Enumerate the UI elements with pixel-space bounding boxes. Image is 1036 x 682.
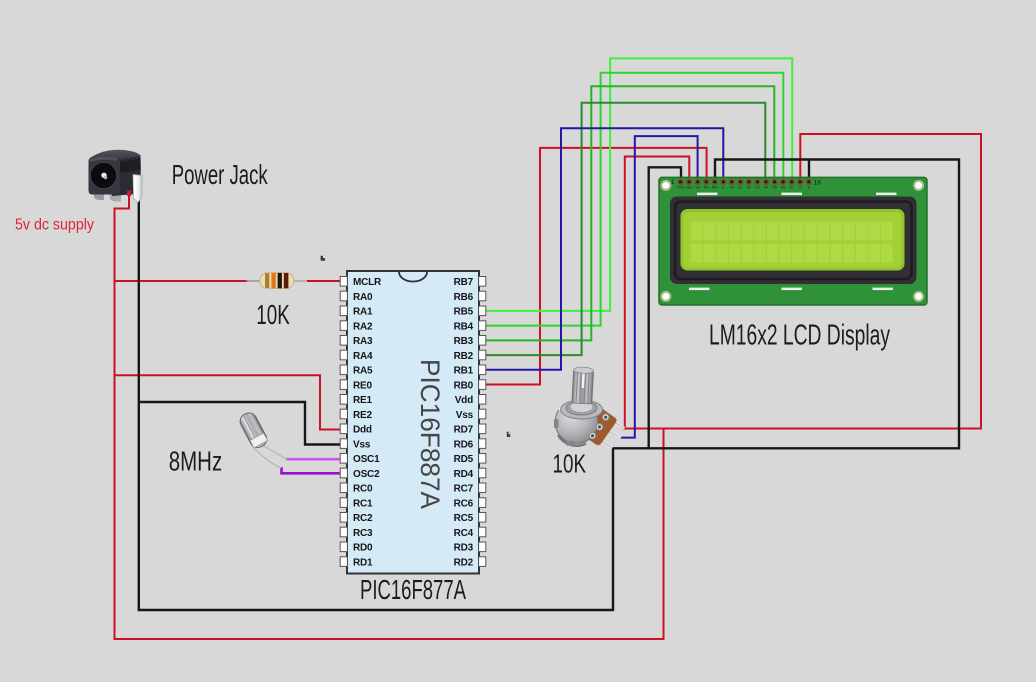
svg-text:8MHz: 8MHz: [169, 446, 223, 477]
pin RB3 (right 5): [479, 336, 486, 346]
pin RC7 (right 15): [479, 483, 486, 493]
pin RD2 (right 20): [479, 557, 486, 567]
svg-text:RD3: RD3: [454, 543, 474, 554]
svg-text:RB7: RB7: [454, 277, 474, 288]
svg-text:RS: RS: [704, 186, 709, 190]
pin RC1 (left 16): [340, 498, 347, 508]
svg-text:RC5: RC5: [454, 513, 474, 524]
pin RC6 (right 16): [479, 498, 486, 508]
wire OSC1 (violet): [287, 458, 342, 461]
svg-text:D0: D0: [730, 186, 734, 190]
svg-text:PIC16F877A: PIC16F877A: [360, 574, 466, 605]
svg-text:RE0: RE0: [353, 380, 372, 391]
body top: [90, 150, 141, 161]
wire MCLR branch (red): [114, 280, 249, 282]
svg-text:V0: V0: [696, 186, 700, 190]
svg-text:RD5: RD5: [454, 454, 474, 465]
svg-text:Vss: Vss: [353, 439, 371, 450]
LCD bezel: [670, 197, 917, 285]
svg-text:1: 1: [671, 179, 675, 186]
svg-text:RB4: RB4: [454, 321, 474, 332]
LCD PCB board: [659, 177, 927, 305]
svg-text:RC3: RC3: [353, 528, 373, 539]
pin RB2 (right 6): [479, 350, 486, 360]
svg-text:RC0: RC0: [353, 484, 373, 495]
svg-text:10K: 10K: [553, 448, 587, 478]
character cells: [691, 222, 893, 263]
svg-text:VDD: VDD: [686, 186, 694, 190]
svg-text:Vss: Vss: [456, 410, 474, 421]
front face: [89, 158, 121, 195]
pin Vss (right 10): [479, 409, 486, 419]
svg-text:RC1: RC1: [353, 498, 373, 509]
wire ground: jack to bottom rail to pot/LCD rail (black): [139, 196, 613, 610]
pin RC2 (left 17): [340, 513, 347, 523]
pin name labels: [677, 186, 811, 190]
svg-text:RC7: RC7: [454, 484, 474, 495]
mounting hole BR: [913, 291, 924, 302]
pin RE1 (left 9): [340, 395, 347, 405]
wire 5V rail: jack to bottom rail up to LCD area (red): [115, 191, 664, 639]
wire 5V to LCD VDD pin 2 (red): [625, 157, 690, 429]
svg-text:RE2: RE2: [353, 410, 372, 421]
lead left: [246, 280, 262, 282]
band 1 brown-gold: [265, 273, 269, 288]
svg-text:RA4: RA4: [353, 351, 373, 362]
svg-text:5v dc supply: 5v dc supply: [15, 217, 94, 234]
wire OSC2 (purple): [282, 467, 342, 473]
svg-text:RC6: RC6: [454, 498, 474, 509]
svg-text:RB3: RB3: [454, 336, 474, 347]
notch: [399, 272, 427, 282]
pin OSC1 (left 13): [340, 454, 347, 464]
body can: [555, 401, 598, 444]
LCD module: [659, 177, 927, 305]
svg-text:RC2: RC2: [353, 513, 373, 524]
svg-text:RB5: RB5: [454, 307, 474, 318]
svg-text:RA2: RA2: [353, 321, 373, 332]
pin RB6 (right 2): [479, 291, 486, 301]
pin RD6 (right 12): [479, 439, 486, 449]
svg-text:RB0: RB0: [454, 380, 474, 391]
band 4 dark brown: [284, 273, 289, 288]
pin RD3 (right 19): [479, 542, 486, 552]
terminal wafer: [582, 408, 618, 446]
PIC pins: [340, 277, 486, 569]
shaft: [572, 367, 594, 404]
eyelets: [602, 414, 609, 421]
pin holes row: [677, 179, 812, 185]
pin RE0 (left 8): [340, 380, 347, 390]
pin RB1 (right 7): [479, 365, 486, 375]
svg-text:RD2: RD2: [454, 557, 474, 568]
wire RB1 to LCD E (blue): [486, 128, 723, 369]
node artifact tick left of pot: [507, 432, 510, 437]
svg-text:RB2: RB2: [454, 351, 474, 362]
svg-text:D3: D3: [755, 186, 759, 190]
svg-text:16: 16: [814, 179, 822, 186]
pin Ddd (left 11): [340, 424, 347, 434]
svg-text:Vdd: Vdd: [455, 395, 473, 406]
svg-text:RA5: RA5: [353, 366, 373, 377]
svg-text:RC4: RC4: [454, 528, 474, 539]
svg-text:RB1: RB1: [454, 366, 474, 377]
wire ground branch to LCD K pin (black): [808, 160, 810, 181]
lead 2: [253, 447, 282, 468]
potentiometer RV1 10K: [554, 367, 625, 448]
svg-text:RW: RW: [712, 186, 718, 190]
svg-text:PIC16F887A: PIC16F887A: [415, 359, 445, 509]
pin RA0 (left 2): [340, 291, 347, 301]
svg-text:RB6: RB6: [454, 292, 474, 303]
svg-text:OSC2: OSC2: [353, 469, 380, 480]
wire RB5 to LCD D7 (bright green): [486, 58, 792, 311]
svg-text:VSS: VSS: [677, 186, 685, 190]
bushing and nut: [561, 400, 603, 419]
barrel hole: [90, 162, 116, 188]
pin RA3 (left 5): [340, 336, 347, 346]
svg-text:OSC1: OSC1: [353, 454, 380, 465]
svg-text:RD0: RD0: [353, 543, 373, 554]
pin RB5 (right 3): [479, 306, 486, 316]
svg-text:D2: D2: [747, 186, 751, 190]
pin RD4 (right 14): [479, 468, 486, 478]
wire Ddd branch (red): [114, 375, 342, 429]
pin RA1 (left 3): [340, 306, 347, 316]
center pin: [101, 173, 106, 178]
svg-text:Power Jack: Power Jack: [172, 159, 269, 190]
lead 1: [259, 443, 287, 459]
silkscreen dashes top: [697, 193, 718, 196]
band 2 orange: [271, 273, 275, 288]
svg-text:RA3: RA3: [353, 336, 373, 347]
pin RB7 (right 1): [479, 277, 486, 287]
node artifact square near MCLR: [321, 256, 326, 261]
LCD screen: [681, 209, 905, 271]
svg-text:D7: D7: [790, 186, 794, 190]
wire RB3 to LCD D5 (green): [486, 86, 774, 340]
red tip mark: [127, 191, 131, 197]
resistor R1 10K: [246, 273, 307, 289]
svg-text:D5: D5: [772, 186, 776, 190]
svg-text:D1: D1: [738, 186, 742, 190]
band 3 black: [278, 273, 282, 288]
svg-text:10K: 10K: [256, 299, 290, 330]
metal foot: [110, 194, 121, 202]
pin RC0 (left 15): [340, 483, 347, 493]
pin RD1 (left 20): [340, 557, 347, 567]
pin RD0 (left 19): [340, 542, 347, 552]
pin Vdd (right 9): [479, 395, 486, 405]
svg-text:MCLR: MCLR: [353, 277, 382, 288]
svg-text:RD7: RD7: [454, 425, 474, 436]
wire RB2 to LCD D4 (dark green): [486, 103, 765, 355]
pin RC3 (left 18): [340, 527, 347, 537]
pin RA5 (left 7): [340, 365, 347, 375]
svg-text:RA0: RA0: [353, 292, 373, 303]
terminal legs: [605, 417, 625, 429]
pin MCLR (left 1): [340, 277, 347, 287]
pin RD7 (right 11): [479, 424, 486, 434]
pin RB0 (right 8): [479, 380, 486, 390]
mounting hole BL: [661, 291, 672, 302]
svg-text:RA1: RA1: [353, 307, 373, 318]
svg-text:RE1: RE1: [353, 395, 372, 406]
wire pot wiper to LCD V0 (blue): [621, 136, 698, 438]
pin RA2 (left 4): [340, 321, 347, 331]
svg-text:RD6: RD6: [454, 439, 474, 450]
contact pin (white): [133, 175, 142, 203]
wire RB0 to LCD RS (red): [486, 148, 707, 385]
mounting hole TL: [661, 180, 672, 191]
pin RA4 (left 6): [340, 350, 347, 360]
pin Vss (left 12): [340, 439, 347, 449]
PIC chip body U1: [347, 271, 479, 574]
svg-text:Ddd: Ddd: [353, 425, 372, 436]
silkscreen dashes bottom: [689, 288, 710, 291]
svg-text:RD4: RD4: [454, 469, 474, 480]
wire ground branch LCD VSS pin 1 (black): [649, 167, 681, 448]
wire RB4 to LCD D6 (green): [486, 73, 783, 326]
pin RC4 (right 18): [479, 527, 486, 537]
pin RD5 (right 13): [479, 454, 486, 464]
wire ground branch to PIC Vss (black): [139, 402, 341, 445]
body right side: [112, 155, 141, 196]
svg-text:LM16x2 LCD Display: LM16x2 LCD Display: [709, 320, 890, 352]
svg-text:D6: D6: [781, 186, 785, 190]
mounting hole TR: [913, 180, 924, 191]
svg-text:D4: D4: [764, 186, 768, 190]
svg-text:RD1: RD1: [353, 557, 373, 568]
pin OSC2 (left 14): [340, 468, 347, 478]
crystal X1 8MHz: [237, 410, 286, 468]
pin RC5 (right 17): [479, 513, 486, 523]
lead right: [292, 280, 307, 282]
clamp dents: [554, 419, 559, 428]
wire 5V top rail to LCD backlight A pin (red): [623, 134, 982, 429]
body: [260, 273, 294, 289]
pin RB4 (right 4): [479, 321, 486, 331]
pin RE2 (left 10): [340, 409, 347, 419]
power jack J1: [89, 150, 143, 203]
